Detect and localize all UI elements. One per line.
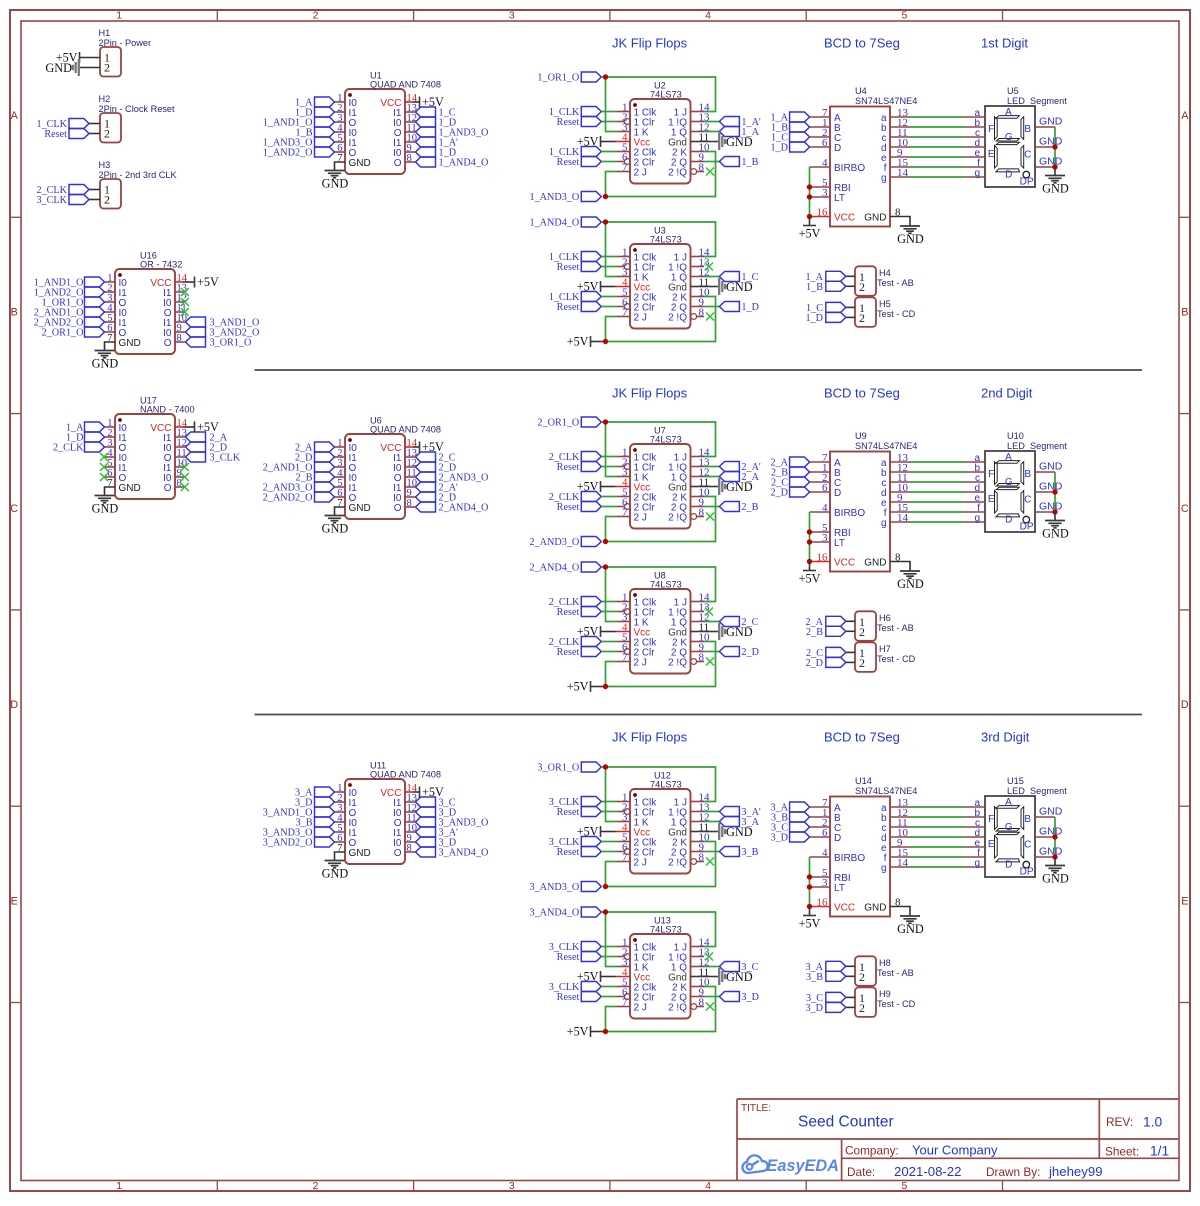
pin 6 O of U6 bbox=[335, 488, 357, 504]
wire 1_CLK to U3 bbox=[601, 296, 617, 298]
svg-text:Date:: Date: bbox=[847, 1165, 875, 1179]
svg-text:A: A bbox=[1005, 452, 1012, 463]
pin 16 VCC of U14 bbox=[810, 896, 856, 913]
pin 7 GND of U17 bbox=[107, 478, 140, 494]
wire Reset to U3 bbox=[601, 266, 617, 268]
net flag 3_CLK (U13) bbox=[549, 982, 602, 994]
svg-text:Test - AB: Test - AB bbox=[877, 623, 914, 633]
power flag +5V (U3 pin 4) bbox=[577, 280, 616, 294]
wire segment g U4 to LED bbox=[910, 176, 965, 178]
junction 1_AND4_O bbox=[603, 219, 608, 224]
svg-text:VCC: VCC bbox=[834, 902, 855, 913]
pin 3 1 K of U12 bbox=[617, 811, 649, 828]
svg-text:8: 8 bbox=[699, 851, 705, 863]
net flag 3_B (U11 pin 4) bbox=[296, 817, 335, 829]
pin 16 VCC of U4 bbox=[810, 206, 856, 223]
wire H4 pin1 bbox=[846, 275, 855, 277]
net flag 2_B (U6 pin 4) bbox=[296, 472, 335, 484]
wire Reset to U8 bbox=[601, 651, 617, 653]
net flag 3_AND1_O (U16 pin 10) bbox=[186, 317, 260, 329]
svg-text:A: A bbox=[11, 110, 19, 122]
title block bbox=[737, 1099, 1179, 1181]
pin 5 RBI of U9 bbox=[810, 522, 851, 539]
pin 2 I1 of U11 bbox=[335, 793, 358, 809]
svg-text:B: B bbox=[1024, 469, 1031, 480]
pin 10 I1 of U6 bbox=[393, 478, 417, 494]
net flag 1_B (H4) bbox=[806, 281, 846, 293]
IC U1 (QUAD AND 7408) body bbox=[345, 71, 441, 175]
pin 4 Vcc of U2 bbox=[616, 131, 651, 148]
pin 6 2 Clr of U13 bbox=[617, 986, 655, 1003]
pin 8 2 !Q of U2 (bubble) bbox=[668, 161, 704, 178]
svg-text:8: 8 bbox=[177, 333, 182, 344]
pin 6 O of U16 bbox=[105, 323, 127, 339]
svg-text:4: 4 bbox=[705, 1180, 711, 1192]
pin 2 1 Clr of U13 bbox=[617, 946, 655, 963]
junction bottom rail U3 bbox=[603, 339, 608, 344]
pin 4 I0 of U17 bbox=[105, 448, 128, 464]
net flag 3_C (U11 pin 13) bbox=[416, 797, 456, 809]
svg-text:BIRBO: BIRBO bbox=[834, 163, 865, 174]
pin 9 I0 of U16 bbox=[163, 323, 185, 339]
svg-text:+5V: +5V bbox=[567, 335, 589, 349]
net flag 1_C (H5) bbox=[806, 302, 846, 314]
net flag 1_D (U17 pin 2) bbox=[66, 432, 105, 444]
power flag +5V (U14) bbox=[799, 907, 821, 931]
pin 8 2 !Q of U8 (bubble) bbox=[668, 651, 704, 668]
wire segment f U9 to LED bbox=[910, 511, 965, 513]
net flag 2_D (H7) bbox=[805, 657, 845, 669]
net flag 3_AND2_O (U16 pin 9) bbox=[186, 327, 260, 339]
pin 2 C of U14 bbox=[810, 817, 842, 834]
svg-text:2_AND2_O: 2_AND2_O bbox=[263, 493, 313, 504]
pin c of U15 bbox=[965, 818, 986, 829]
svg-text:2: 2 bbox=[859, 970, 865, 984]
junction GND bottom (U5) bbox=[1052, 164, 1057, 169]
pin 6 2 Clr of U12 bbox=[617, 841, 655, 858]
svg-text:1: 1 bbox=[116, 10, 122, 22]
junction 3_AND4_O bbox=[603, 909, 608, 914]
svg-text:3_CLK: 3_CLK bbox=[36, 195, 67, 206]
net flag 2_C (U6 pin 13) bbox=[416, 452, 456, 464]
wire H1 pin2 to GND bbox=[80, 67, 100, 69]
wire H8 pin2 bbox=[846, 975, 855, 977]
pin f of U5 bbox=[965, 158, 986, 169]
EasyEDA logo bbox=[742, 1155, 838, 1175]
net flag 1_A (U17 pin 1) bbox=[66, 422, 105, 434]
net flag 2_A' (U7 pin 13) bbox=[704, 462, 761, 474]
pin 14 VCC of U6 bbox=[380, 438, 417, 454]
svg-text:3: 3 bbox=[822, 877, 828, 889]
pin 10 2 K of U2 bbox=[672, 141, 710, 158]
pin 1 1 Clk of U13 bbox=[617, 936, 657, 953]
svg-text:5: 5 bbox=[901, 10, 907, 22]
svg-text:GND: GND bbox=[349, 503, 371, 514]
connector H8 (Test - AB) bbox=[855, 956, 914, 986]
net flag 1_D (U3 pin 9) bbox=[704, 302, 759, 314]
svg-text:+5V: +5V bbox=[567, 1025, 589, 1039]
svg-text:1_C: 1_C bbox=[741, 272, 758, 283]
pin 3 LT of U14 bbox=[810, 877, 845, 894]
wire U13 pin7/pin10 bottom rail bbox=[606, 987, 716, 1032]
power flag +5V (H1) bbox=[56, 51, 80, 65]
pin 7 GND of U1 bbox=[337, 153, 370, 169]
pin 12 I0 of U17 bbox=[163, 438, 187, 454]
net flag 3_C (U13 pin 12) bbox=[704, 962, 759, 974]
svg-text:2 J: 2 J bbox=[634, 167, 647, 178]
svg-text:2: 2 bbox=[859, 656, 865, 670]
net flag 2_A (U9 input) bbox=[770, 457, 809, 469]
svg-text:2Pin - Power: 2Pin - Power bbox=[99, 38, 152, 48]
pin 13 a of U9 bbox=[881, 452, 910, 469]
svg-text:Reset: Reset bbox=[557, 502, 580, 513]
svg-text:U10: U10 bbox=[1007, 431, 1024, 441]
net flag 1_C (U4 input) bbox=[771, 132, 810, 144]
IC U4 (SN74LS47NE4) bbox=[830, 86, 917, 227]
wire Reset to U13 bbox=[601, 996, 617, 998]
wire U3 pin7/pin10 bottom rail bbox=[606, 297, 716, 342]
junction GND bottom (U10) bbox=[1052, 509, 1057, 514]
svg-text:3_OR1_O: 3_OR1_O bbox=[537, 763, 579, 774]
pin 1 I0 of U16 bbox=[105, 273, 128, 289]
pin 3 1 K of U8 bbox=[617, 611, 649, 628]
power flag +5V (U13 pin 4) bbox=[577, 970, 616, 984]
svg-text:Company:: Company: bbox=[845, 1144, 899, 1158]
pin 12 1 Q of U3 bbox=[671, 266, 710, 283]
pin 3 O of U16 bbox=[105, 293, 127, 309]
ground (GND U10) bbox=[1042, 512, 1069, 541]
pin 11 Gnd of U12 bbox=[668, 821, 709, 838]
pin 10 I1 of U16 bbox=[163, 313, 187, 329]
net flag 1_AND2_O (U16 pin 2) bbox=[34, 287, 105, 299]
svg-text:GND: GND bbox=[92, 502, 119, 516]
svg-text:g: g bbox=[974, 858, 980, 869]
IC U9 (SN74LS47NE4) bbox=[830, 431, 917, 572]
pin 5 2 Clk of U13 bbox=[617, 976, 657, 993]
svg-text:2_D: 2_D bbox=[805, 658, 823, 669]
svg-text:+5V: +5V bbox=[422, 95, 444, 109]
pin 2 1 Clr of U7 bbox=[617, 456, 655, 473]
net flag 3_AND2_O (U11 pin 6) bbox=[263, 837, 335, 849]
svg-text:A: A bbox=[1005, 107, 1012, 118]
pin 11 c of U4 bbox=[882, 127, 911, 144]
pin 8 GND of U4 bbox=[864, 206, 901, 223]
pin 13 1 !Q of U7 bbox=[668, 456, 710, 473]
pin 9 I0 of U11 bbox=[393, 833, 415, 849]
svg-text:1_D: 1_D bbox=[805, 313, 823, 324]
pin 10 2 K of U3 bbox=[672, 286, 710, 303]
pin 4 I0 of U16 bbox=[105, 303, 128, 319]
svg-text:C: C bbox=[1024, 495, 1031, 506]
pin 9 2 Q of U13 bbox=[671, 986, 705, 1003]
svg-text:3_AND2_O: 3_AND2_O bbox=[263, 838, 313, 849]
svg-text:BCD to 7Seg: BCD to 7Seg bbox=[824, 730, 900, 745]
net flag Reset (U8) bbox=[557, 607, 602, 619]
svg-text:A: A bbox=[1181, 110, 1189, 122]
net flag 2_C (H7) bbox=[806, 647, 846, 659]
connector H1 (2Pin - Power) bbox=[99, 28, 152, 77]
svg-text:16: 16 bbox=[817, 551, 829, 563]
net flag 2_C (U9 input) bbox=[771, 477, 810, 489]
pin 12 b of U14 bbox=[881, 807, 910, 824]
no-connect (U8 pin 13) bbox=[705, 608, 713, 616]
svg-text:H8: H8 bbox=[879, 958, 891, 968]
svg-text:1_AND4_O: 1_AND4_O bbox=[439, 158, 489, 169]
pin 10 I1 of U11 bbox=[393, 823, 417, 839]
pin 12 I0 of U1 bbox=[393, 113, 417, 129]
ground (GND U11 pin 7) bbox=[322, 852, 349, 881]
ground (GND U4 pin 8) bbox=[890, 217, 924, 247]
pin b of U15 bbox=[965, 808, 986, 819]
svg-text:3_D: 3_D bbox=[770, 833, 788, 844]
pin 12 b of U9 bbox=[881, 462, 910, 479]
net flag 3_A (U14 input) bbox=[770, 802, 809, 814]
net flag 3_C (H9) bbox=[806, 992, 846, 1004]
net flag 1_D (U4 input) bbox=[770, 142, 809, 154]
svg-text:2: 2 bbox=[313, 10, 319, 22]
pin 1 I0 of U6 bbox=[335, 438, 358, 454]
net flag 2_AND1_O (U16 pin 4) bbox=[34, 307, 105, 319]
pin 11 Gnd of U13 bbox=[668, 966, 709, 983]
pin 13 I1 of U17 bbox=[163, 428, 187, 444]
svg-text:7: 7 bbox=[622, 651, 628, 663]
svg-text:1_B: 1_B bbox=[806, 282, 823, 293]
ground (GND U16 pin 7) bbox=[92, 342, 119, 371]
connector H4 (Test - AB) bbox=[855, 266, 914, 296]
pin 4 I0 of U11 bbox=[335, 813, 358, 829]
net flag 3_CLK (U12) bbox=[549, 797, 602, 809]
pin 2 C of U9 bbox=[810, 472, 842, 489]
net flag 2_AND4_O bbox=[529, 562, 601, 574]
svg-text:2 !Q: 2 !Q bbox=[668, 167, 687, 178]
pin 14 1 J of U12 bbox=[674, 791, 710, 808]
pin 16 VCC of U9 bbox=[810, 551, 856, 568]
junction RBI (U14) bbox=[807, 874, 812, 879]
junction RBI (U9) bbox=[807, 529, 812, 534]
pin 4 I0 of U6 bbox=[335, 468, 358, 484]
no-connect (U17 pin 5) bbox=[100, 463, 108, 471]
svg-text:3_C: 3_C bbox=[741, 962, 758, 973]
connector H3 (2Pin - 2nd 3rd CLK) bbox=[99, 160, 178, 209]
svg-text:8: 8 bbox=[699, 161, 705, 173]
svg-text:GND: GND bbox=[864, 557, 886, 568]
svg-text:E: E bbox=[988, 149, 995, 160]
power flag +5V (U9) bbox=[799, 562, 821, 586]
svg-text:GND: GND bbox=[1039, 481, 1063, 493]
svg-text:8: 8 bbox=[699, 506, 705, 518]
net flag 1_OR1_O bbox=[537, 72, 601, 84]
svg-text:H9: H9 bbox=[879, 989, 891, 999]
wire Reset to U2 bbox=[601, 121, 617, 123]
wire Reset to U8 bbox=[601, 611, 617, 613]
net flag 1_A (U2 pin 12) bbox=[704, 127, 760, 139]
section divider line 2 bbox=[255, 714, 1143, 716]
svg-text:2_AND3_O: 2_AND3_O bbox=[529, 537, 579, 548]
svg-text:1_AND4_O: 1_AND4_O bbox=[529, 218, 579, 229]
svg-text:16: 16 bbox=[817, 896, 829, 908]
wire Reset to U13 bbox=[601, 956, 617, 958]
junction VCC (U14) bbox=[807, 904, 812, 909]
svg-text:7: 7 bbox=[622, 851, 628, 863]
net flag Reset (U7) bbox=[557, 502, 602, 514]
pin 7 A of U4 bbox=[810, 107, 841, 124]
net flag 1_D (U1 pin 2) bbox=[295, 107, 335, 119]
pin g of U5 bbox=[965, 168, 986, 179]
junction 1_AND3_O bbox=[603, 194, 608, 199]
svg-text:Reset: Reset bbox=[557, 262, 580, 273]
pin 7 2 J of U2 bbox=[617, 161, 647, 178]
wire Reset to U12 bbox=[601, 811, 617, 813]
svg-text:3_AND3_O: 3_AND3_O bbox=[529, 882, 579, 893]
svg-text:LT: LT bbox=[834, 193, 845, 204]
svg-text:g: g bbox=[974, 168, 980, 179]
net flag 3_D (U14 input) bbox=[770, 832, 809, 844]
wire U12 pin7/pin10 bottom rail bbox=[606, 842, 716, 887]
svg-text:C: C bbox=[10, 503, 18, 515]
svg-text:U5: U5 bbox=[1007, 86, 1019, 96]
wire H4 pin2 bbox=[846, 285, 855, 287]
svg-text:2: 2 bbox=[859, 280, 865, 294]
net flag 1_B (U2 pin 9) bbox=[704, 157, 759, 169]
net flag 1_B (U4 input) bbox=[771, 122, 810, 134]
junction 2_OR1_O bbox=[603, 419, 608, 424]
wire 1_CLK to U2 bbox=[601, 151, 617, 153]
svg-text:B: B bbox=[1181, 307, 1188, 319]
wire Reset to U12 bbox=[601, 851, 617, 853]
svg-text:GND: GND bbox=[322, 177, 349, 191]
net flag 2_AND4_O (U6 pin 8) bbox=[416, 502, 489, 514]
net flag 2_CLK (U8) bbox=[549, 637, 602, 649]
power flag +5V (U1 pin 14) bbox=[413, 95, 444, 109]
pin 1 I0 of U17 bbox=[105, 418, 128, 434]
pin d of U10 bbox=[965, 483, 986, 494]
wire 3_CLK to U12 bbox=[601, 801, 617, 803]
wire 3_CLK to U13 bbox=[601, 986, 617, 988]
svg-text:U9: U9 bbox=[855, 431, 867, 441]
net flag 2_CLK (U8) bbox=[549, 597, 602, 609]
svg-text:B: B bbox=[11, 307, 18, 319]
svg-text:74LS73: 74LS73 bbox=[650, 90, 682, 100]
net flag 3_OR1_O (U16 pin 8) bbox=[186, 337, 252, 349]
svg-text:BCD to 7Seg: BCD to 7Seg bbox=[824, 36, 900, 51]
svg-text:2 J: 2 J bbox=[634, 857, 647, 868]
no-connect (U12 pin 8) bbox=[706, 858, 714, 866]
svg-text:H2: H2 bbox=[99, 94, 111, 104]
svg-text:2_OR1_O: 2_OR1_O bbox=[42, 328, 84, 339]
pin 8 O of U17 bbox=[164, 478, 186, 494]
pin f of U15 bbox=[965, 848, 986, 859]
net flag 1_AND4_O bbox=[529, 217, 601, 229]
net flag 2_AND2_O (U6 pin 6) bbox=[263, 492, 335, 504]
svg-text:D: D bbox=[1005, 859, 1012, 870]
wire BIRBO/RBI/LT/VCC rail (U14) bbox=[809, 857, 811, 907]
pin 6 O of U17 bbox=[105, 468, 127, 484]
net flag 3_B (H8) bbox=[806, 971, 846, 983]
svg-text:G: G bbox=[1005, 477, 1013, 488]
net flag 2_AND2_O (U16 pin 5) bbox=[34, 317, 105, 329]
svg-text:Reset: Reset bbox=[557, 647, 580, 658]
net flag 2_D (U6 pin 12) bbox=[416, 462, 457, 474]
svg-text:74LS73: 74LS73 bbox=[650, 780, 682, 790]
net flag 1_A (U1 pin 1) bbox=[295, 97, 335, 109]
wire 1_OR1_O to U2 pins 14 and 3 bbox=[601, 77, 715, 132]
svg-text:Your Company: Your Company bbox=[912, 1143, 998, 1158]
net flag 1_AND1_O (U16 pin 1) bbox=[34, 277, 105, 289]
svg-text:3_OR1_O: 3_OR1_O bbox=[210, 338, 252, 349]
svg-text:7: 7 bbox=[622, 161, 628, 173]
pin 7 A of U9 bbox=[810, 452, 841, 469]
svg-text:LED_Segment: LED_Segment bbox=[1007, 96, 1067, 106]
net flag 3_C (U14 input) bbox=[771, 822, 810, 834]
net flag 3_B (U12 pin 9) bbox=[704, 847, 759, 859]
pin 5 RBI of U4 bbox=[810, 177, 851, 194]
IC U14 (SN74LS47NE4) bbox=[830, 776, 917, 917]
svg-text:14: 14 bbox=[897, 512, 909, 524]
pin d of U15 bbox=[965, 828, 986, 839]
pin 4 BIRBO of U9 bbox=[810, 502, 866, 519]
wire 2_CLK to U8 bbox=[601, 601, 617, 603]
IC U7 (74LS73) bbox=[616, 426, 711, 529]
power flag +5V (U6 pin 14) bbox=[413, 440, 444, 454]
IC U6 (QUAD AND 7408) body bbox=[345, 416, 441, 520]
wire segment f U14 to LED bbox=[910, 856, 965, 858]
pin 6 2 Clr of U8 bbox=[617, 641, 655, 658]
wire 1_CLK to U2 bbox=[601, 111, 617, 113]
pin 14 VCC of U1 bbox=[380, 93, 417, 109]
wire 3_AND4_O to U13 pins 14 and 3 bbox=[601, 912, 715, 967]
pin 13 I1 of U16 bbox=[163, 283, 187, 299]
svg-text:1_AND2_O: 1_AND2_O bbox=[263, 148, 313, 159]
svg-text:+5V: +5V bbox=[577, 625, 599, 639]
svg-text:Reset: Reset bbox=[557, 462, 580, 473]
svg-text:6: 6 bbox=[822, 482, 828, 494]
wire BIRBO/RBI/LT/VCC rail (U9) bbox=[809, 512, 811, 562]
pin 11 O of U11 bbox=[394, 813, 417, 829]
power flag GND (U3 pin 11) bbox=[704, 278, 753, 295]
pin 7 2 J of U12 bbox=[617, 851, 647, 868]
pin 14 VCC of U16 bbox=[150, 273, 187, 289]
svg-text:1_OR1_O: 1_OR1_O bbox=[537, 73, 579, 84]
svg-text:JK Flip Flops: JK Flip Flops bbox=[612, 36, 688, 51]
svg-text:3_D: 3_D bbox=[741, 992, 759, 1003]
pin 10 2 K of U8 bbox=[672, 631, 710, 648]
svg-text:GND: GND bbox=[349, 158, 371, 169]
svg-text:g: g bbox=[881, 518, 887, 529]
svg-text:2_B: 2_B bbox=[741, 502, 758, 513]
svg-text:2_A: 2_A bbox=[741, 472, 759, 483]
wire segment e U14 to LED bbox=[910, 846, 965, 848]
pin 12 I0 of U16 bbox=[163, 293, 187, 309]
svg-text:O: O bbox=[394, 158, 402, 169]
no-connect (U17 pin 9) bbox=[181, 473, 189, 481]
pin 14 VCC of U11 bbox=[380, 783, 417, 799]
pin 3 1 K of U3 bbox=[617, 266, 649, 283]
svg-text:BIRBO: BIRBO bbox=[834, 508, 865, 519]
svg-text:Test - CD: Test - CD bbox=[877, 654, 916, 664]
pin b of U10 bbox=[965, 463, 986, 474]
svg-text:8: 8 bbox=[407, 153, 412, 164]
pin 9 2 Q of U3 bbox=[671, 296, 705, 313]
svg-text:Reset: Reset bbox=[557, 807, 580, 818]
pin 10 d of U14 bbox=[881, 827, 910, 844]
pin 13 1 !Q of U12 bbox=[668, 801, 710, 818]
svg-text:OR - 7432: OR - 7432 bbox=[140, 260, 182, 270]
svg-text:D: D bbox=[1005, 514, 1012, 525]
pin 4 I0 of U1 bbox=[335, 123, 358, 139]
pin 8 O of U1 bbox=[394, 153, 416, 169]
svg-text:3: 3 bbox=[822, 187, 828, 199]
ground (GND U17 pin 7) bbox=[92, 487, 119, 516]
